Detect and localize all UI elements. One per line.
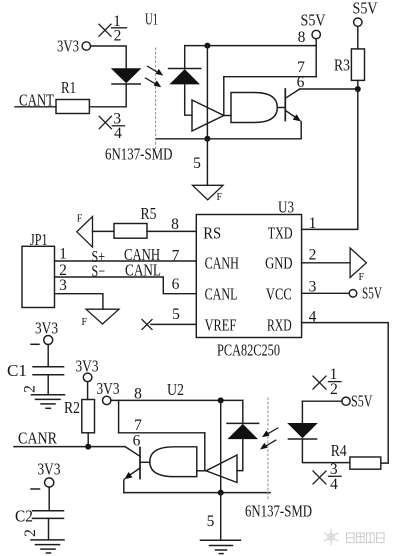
wire photodiode anode to amp input — [185, 84, 192, 115]
ground flag F (R5 net) — [77, 214, 93, 248]
junction R2/CANR — [85, 444, 91, 450]
svg-text:R4: R4 — [331, 441, 347, 460]
wire 3V3 to LED anode — [91, 46, 127, 69]
svg-text:CANR: CANR — [18, 429, 57, 448]
svg-text:RS: RS — [203, 223, 221, 242]
wire flag to R5 — [93, 230, 115, 232]
ground (C2 earth) — [31, 540, 64, 553]
power S5V terminal (U2 LED) — [302, 392, 372, 411]
no-connect mark pins 1/2 U2 — [313, 366, 341, 398]
wire U1 vcc rail (pin 8) — [185, 45, 317, 47]
resistor R1 — [56, 78, 89, 114]
ground flag F (U3 GND) — [350, 248, 366, 283]
svg-text:1: 1 — [59, 246, 67, 263]
wire enable feed to gate input — [223, 77, 225, 116]
svg-text:U2: U2 — [167, 380, 184, 399]
svg-text:C2: C2 — [15, 507, 33, 526]
svg-text:C1: C1 — [7, 361, 27, 380]
svg-text:F: F — [82, 317, 88, 328]
power 3V3 terminal (C2) — [31, 460, 61, 511]
resistor R4 — [331, 441, 381, 469]
watermark logo — [325, 530, 338, 545]
svg-text:7: 7 — [134, 417, 142, 434]
photodiode U1 detector — [169, 69, 201, 84]
wire VREF pin 5 — [151, 323, 196, 325]
wire photodiode cathode up — [184, 46, 186, 69]
resistor R2 — [64, 398, 95, 447]
wire pin 7 enable rail U2 — [119, 432, 205, 434]
wire photodiode anode to amp input — [237, 439, 243, 471]
power S5V terminal pin 8 — [301, 11, 326, 46]
svg-text:F: F — [77, 214, 83, 225]
node CANR — [14, 429, 125, 448]
ground (U2 pin5 earth) — [201, 540, 241, 553]
wire CANL JP1 pin2 to U3 pin6 — [55, 277, 197, 294]
SECTION-U3 — [22, 89, 388, 463]
wire pin 5 to ground — [206, 139, 208, 186]
svg-text:VCC: VCC — [266, 285, 292, 304]
ground flag F (JP1 pin3) — [82, 309, 120, 328]
wire pin 5 to ground U2 — [220, 493, 222, 541]
svg-text:CANH: CANH — [205, 254, 239, 273]
isolation barrier U2 — [267, 398, 269, 500]
light arrow 1 — [148, 66, 164, 75]
node CANT — [15, 91, 56, 110]
svg-text:6N137-SMD: 6N137-SMD — [245, 502, 312, 521]
connector JP1 — [22, 230, 55, 308]
power 3V3 terminal (top) — [57, 37, 91, 56]
svg-text:RXD: RXD — [267, 315, 292, 334]
wire RXD to R4 — [302, 323, 389, 464]
isolation barrier U1 — [155, 48, 157, 150]
svg-text:4: 4 — [114, 125, 122, 142]
svg-text:2: 2 — [330, 381, 338, 398]
photodiode U2 detector — [227, 423, 259, 438]
svg-text:S5V: S5V — [362, 284, 382, 303]
svg-text:4: 4 — [330, 476, 338, 493]
svg-text:VREF: VREF — [205, 315, 237, 334]
wire pin 6 output — [300, 88, 358, 90]
junction U2 vcc rail — [218, 397, 224, 403]
svg-text:2: 2 — [22, 385, 39, 393]
watermark text — [347, 533, 385, 543]
op-amp U1 detector amplifier — [192, 100, 224, 131]
wire center vertical U1 — [206, 46, 208, 139]
no-connect mark pins 3/4 U2 — [313, 461, 341, 493]
svg-text:S5V: S5V — [353, 0, 378, 18]
wire LED anode up — [301, 401, 303, 423]
ground flag F (U1 pin5) — [193, 185, 224, 203]
power 3V3 terminal (C1) — [31, 319, 58, 367]
ic U3 PCA82C250 body — [196, 215, 301, 338]
svg-text:2: 2 — [114, 28, 122, 45]
no-connect mark VREF — [142, 320, 152, 330]
capacitor C1 — [7, 361, 64, 395]
svg-text:8: 8 — [298, 29, 306, 46]
resistor R5 — [114, 204, 157, 238]
no-connect mark pins 1/2 — [99, 13, 127, 45]
wire R5 to RS pin 8 — [147, 230, 196, 232]
svg-text:3V3: 3V3 — [57, 37, 79, 56]
svg-text:3: 3 — [59, 277, 67, 294]
capacitor C2 — [15, 507, 64, 540]
diode U1 input LED — [112, 69, 140, 84]
wire enable feed to amp apex U2 — [204, 433, 206, 471]
transistor U1 open-collector output — [285, 89, 301, 139]
svg-text:7: 7 — [172, 248, 180, 265]
wire pin 7 enable rail — [224, 76, 316, 78]
wire VCC pin 3 — [302, 292, 350, 294]
SECTION-MISC — [7, 319, 384, 554]
light arrow 2 — [146, 78, 162, 87]
svg-text:5: 5 — [207, 513, 215, 530]
svg-text:R1: R1 — [61, 78, 76, 97]
wire JP1 pin3 to ground flag — [55, 294, 103, 310]
transistor U2 output — [124, 447, 140, 493]
svg-text:S5V: S5V — [351, 392, 373, 411]
and-gate U1 output stage — [231, 93, 277, 123]
no-connect mark pins 3/4 — [99, 111, 124, 143]
svg-text:2: 2 — [22, 529, 39, 537]
svg-text:5: 5 — [172, 306, 180, 323]
svg-text:PCA82C250: PCA82C250 — [217, 341, 280, 360]
wire pin8 to pin7 tie — [118, 400, 120, 432]
and-gate U2 output stage — [150, 447, 197, 477]
svg-text:U3: U3 — [278, 198, 294, 217]
svg-text:3V3: 3V3 — [97, 379, 120, 398]
power 3V3 terminal (U2 pin8) — [97, 379, 120, 405]
svg-text:6: 6 — [172, 276, 180, 293]
wire LED cathode to R1 — [89, 84, 126, 107]
svg-text:F: F — [217, 192, 223, 203]
junction pin6/R3 — [355, 86, 361, 92]
wire amp output to gate — [224, 115, 231, 117]
wire gate to transistor base — [277, 107, 285, 109]
svg-text:3V3: 3V3 — [38, 460, 61, 479]
junction U2 ground rail — [218, 490, 224, 496]
svg-text:TXD: TXD — [268, 223, 293, 242]
svg-text:R3: R3 — [334, 56, 350, 75]
svg-text:2: 2 — [309, 247, 317, 264]
wire U2 vcc rail pin 8 — [111, 399, 243, 401]
light arrow 1 U2 — [262, 428, 278, 437]
svg-text:R5: R5 — [141, 204, 157, 223]
resistor R3 — [334, 49, 365, 89]
svg-text:U1: U1 — [145, 10, 158, 29]
junction on vcc rail — [204, 43, 210, 49]
ground (C1 earth) — [32, 395, 65, 409]
svg-text:GND: GND — [265, 254, 292, 273]
power 3V3 terminal (R2) — [76, 357, 99, 400]
SECTION-U1 — [15, 0, 378, 203]
diode U2 input LED — [288, 424, 316, 440]
SECTION-U2 — [14, 357, 381, 554]
light arrow 2 U2 — [260, 440, 276, 449]
svg-text:R2: R2 — [64, 398, 80, 417]
svg-text:8: 8 — [171, 216, 179, 233]
wire pin 8 to pin 7 tie — [315, 46, 317, 77]
svg-text:F: F — [359, 272, 365, 283]
power S5V terminal VCC — [349, 284, 382, 303]
wire vcc rail to photodiode cathode — [242, 400, 244, 423]
wire TXD to R3 junction — [302, 89, 358, 229]
svg-text:3V3: 3V3 — [35, 319, 58, 338]
wire CANH JP1 pin1 to U3 pin7 — [55, 260, 197, 262]
wire amp output to gate U2 — [197, 470, 206, 472]
svg-text:CANL: CANL — [205, 285, 238, 304]
wire center vertical U2 — [220, 400, 222, 492]
junction on ground rail — [204, 136, 210, 142]
wire GND pin 2 — [302, 262, 351, 264]
op-amp U2 detector amplifier — [206, 455, 237, 483]
svg-text:S5V: S5V — [301, 11, 326, 30]
svg-text:5: 5 — [193, 155, 201, 172]
wire U2 ground rail — [124, 492, 270, 494]
wire LED cathode to R4 — [302, 439, 350, 463]
wire gate to transistor base U2 — [140, 461, 150, 463]
svg-text:6N137-SMD: 6N137-SMD — [105, 145, 173, 164]
power S5V terminal R3 — [353, 0, 378, 49]
wire U1 ground rail — [157, 138, 302, 140]
